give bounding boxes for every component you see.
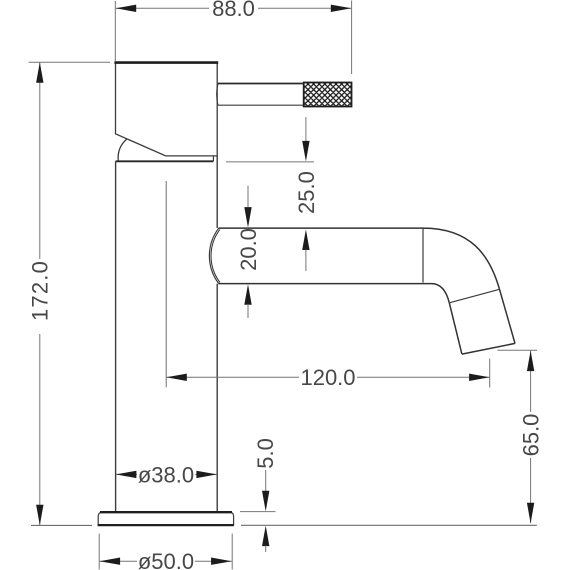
lever arm top edge [218,83,304,85]
svg-text:ø38.0: ø38.0 [138,462,194,487]
dimension 25.0 arrow down [302,141,309,162]
spout junction outer arc [209,228,218,283]
dimension 88.0 extension left [114,1,116,61]
spout tip inner edge [449,303,462,354]
dimension 65.0 extension top [497,349,537,351]
handle cap thick top edge [114,61,218,64]
handle cap body [116,63,218,156]
base plate thick bottom edge [98,524,234,526]
dimension dia38.0 arrow right [196,471,217,478]
spout inner curve [432,284,450,303]
dimension dia38.0 text [137,462,195,487]
dimension dia50.0 extension left [98,534,100,570]
dimension 20.0 lower leader [247,304,249,318]
dimension 172.0 arrow top [36,62,43,83]
dimension 88.0 extension right [351,1,353,75]
dimension dia50.0 arrow right [211,558,232,565]
dimension 65.0 arrow bottom [527,503,534,524]
dimension 25.0 arrow up [302,230,309,251]
dimension 172.0 line upper [39,62,41,259]
dimension 120.0 line [166,376,489,378]
column left edge [115,161,117,511]
dimension 5.0 upper leader [265,470,267,492]
column top line [116,160,214,162]
dimension dia38.0 line [116,473,217,475]
spout junction inner arc [211,229,220,282]
dimension 25.0 extension [226,161,314,163]
svg-text:ø50.0: ø50.0 [138,549,194,570]
dimension dia50.0 arrow left [100,558,121,565]
base plate [98,512,233,525]
dimension 65.0 line lower [530,458,532,523]
spout tip outer edge [500,289,516,343]
column right edge lower [216,284,218,512]
lever arm left arc [217,84,218,106]
dimension 25.0 lower leader [305,250,307,272]
column right edge upper [216,156,218,228]
dimension 88.0 line [116,7,352,9]
svg-text:20.0: 20.0 [236,228,261,271]
dimension 172.0 line lower [39,334,41,525]
dimension 5.0 arrow up [262,526,269,547]
dimension dia38.0 arrow left [116,471,136,478]
dimension 120.0 text [299,365,357,390]
dimension 65.0 line upper [530,351,532,413]
dimension 20.0 arrow down [244,207,251,228]
dimension 120.0 extension right [489,359,491,388]
spout bottom edge [218,283,431,285]
dimension 65.0 arrow top [527,351,534,372]
spout tip joint line [449,289,499,303]
svg-text:88.0: 88.0 [212,0,255,21]
dimension 5.0 extension [240,511,276,513]
dimension dia50.0 extension right [231,534,233,570]
svg-text:120.0: 120.0 [300,365,355,390]
spout tip end face [462,343,515,354]
svg-text:25.0: 25.0 [294,171,319,214]
cap right tick [212,156,214,161]
lever arm bottom edge [218,104,304,106]
deck line left segment [31,524,92,526]
column centerline [165,181,167,387]
spout outer curve [423,228,500,289]
dimension 20.0 arrow up [244,284,251,305]
spout top edge [218,227,423,229]
dimension 20.0 upper leader [247,186,249,209]
deck line right segment [241,524,537,526]
dimension 120.0 arrow left [166,374,187,381]
spout joint line [422,228,424,283]
dimension 5.0 lower leader [265,546,267,552]
dimension 172.0 extension top [29,61,110,63]
dimension dia50.0 line [100,560,232,562]
dimension 25.0 upper leader [305,117,307,142]
svg-text:5.0: 5.0 [253,438,278,469]
dimension 88.0 text [209,0,258,21]
dimension 172.0 arrow bottom [36,505,43,526]
dimension dia50.0 text [137,549,195,570]
dimension 88.0 arrow right [331,5,352,12]
svg-text:65.0: 65.0 [519,414,544,457]
base plate thick top edge [100,511,232,513]
svg-text:172.0: 172.0 [28,260,53,321]
cap joint arc [118,139,127,161]
dimension 5.0 arrow down [262,491,269,512]
dimension 88.0 arrow left [116,5,137,12]
knurled grip [304,83,352,107]
dimension 120.0 arrow right [469,374,490,381]
